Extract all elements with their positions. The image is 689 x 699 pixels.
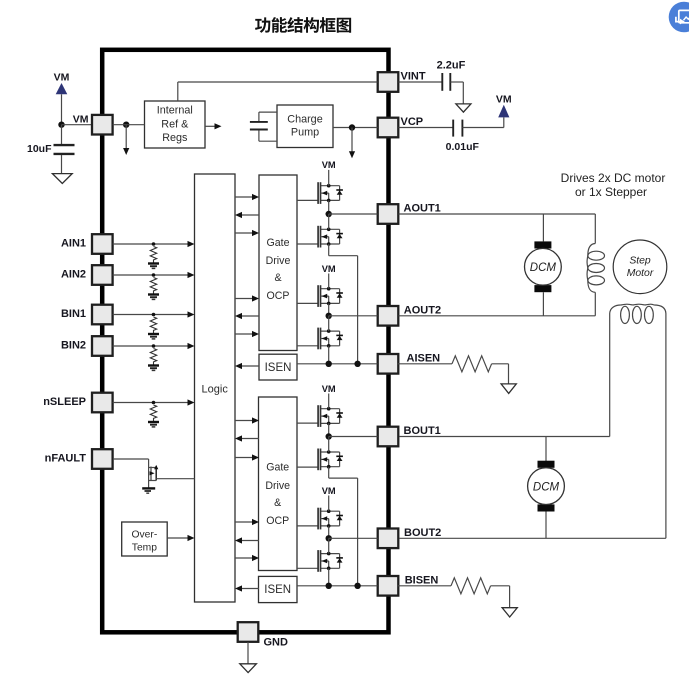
- wire BOUT2 external: [399, 537, 666, 539]
- IC boundary: [102, 50, 388, 633]
- wire VM to drain: [328, 170, 330, 186]
- svg-text:&: &: [274, 497, 281, 509]
- svg-text:AOUT2: AOUT2: [404, 304, 441, 316]
- wire BOUT1 up to coil B: [609, 314, 611, 437]
- wire AISEN to resistor: [398, 363, 452, 365]
- svg-text:VM: VM: [322, 486, 336, 496]
- wire Internal Regs to VINT: [177, 82, 179, 101]
- wire BOUT1 node to Q6 drain: [328, 437, 330, 453]
- wire AOUT2 node to Q4 drain: [328, 316, 330, 331]
- wire AOUT1 node to Q2 drain: [328, 214, 330, 229]
- transistor Q1 A-high1: [318, 182, 343, 204]
- svg-text:OCP: OCP: [267, 290, 290, 302]
- transistor Q7 B-high2: [318, 508, 343, 530]
- svg-text:Logic: Logic: [202, 383, 229, 395]
- svg-text:Ref &: Ref &: [161, 119, 189, 131]
- pin BIN2: [92, 336, 113, 356]
- wire AOUT1 down to coil A: [594, 214, 596, 244]
- resistor AISEN sense: [452, 356, 492, 372]
- svg-text:VM: VM: [322, 160, 336, 170]
- wire Over-Temp to Logic: [167, 537, 188, 539]
- inductor coil B horizontal: [610, 304, 666, 323]
- pulldown resistor BIN2: [148, 344, 159, 370]
- wire gate lead: [297, 422, 318, 424]
- svg-text:VM: VM: [322, 264, 336, 274]
- wire 10uF to ground: [61, 155, 63, 174]
- svg-text:Over-: Over-: [132, 529, 158, 540]
- ground GND: [240, 664, 257, 673]
- pin GND: [238, 622, 259, 642]
- wire ISEN to Logic: [242, 365, 259, 367]
- node ISEN B right: [354, 583, 360, 589]
- wire ISEN B line: [297, 585, 378, 587]
- svg-text:BIN1: BIN1: [61, 308, 86, 320]
- wire Logic to GateDrive: [235, 333, 253, 335]
- wire Logic to GateDrive: [235, 521, 253, 523]
- wire VM to drain: [328, 274, 330, 289]
- pin VM: [92, 115, 113, 135]
- pulldown resistor AIN2: [148, 273, 159, 299]
- wire BOUT1 external: [399, 436, 610, 438]
- block Charge Pump: [277, 105, 333, 148]
- block Logic: [195, 174, 236, 602]
- wire Q1 source to AOUT1 node: [328, 200, 330, 214]
- wire gate lead: [297, 567, 318, 569]
- wire AOUT1 external: [399, 213, 596, 215]
- wire gate lead: [297, 199, 318, 201]
- title 功能结构框图: [255, 17, 351, 33]
- svg-text:Drive: Drive: [266, 255, 291, 267]
- wire VM to drain: [328, 394, 330, 409]
- svg-text:Charge: Charge: [287, 113, 322, 125]
- pin BISEN: [378, 576, 399, 596]
- VM distribution arrow down: [125, 125, 127, 149]
- wire VCP to cap 0.01uF: [399, 127, 454, 129]
- svg-text:VM: VM: [73, 113, 89, 125]
- wire ISEN A line: [297, 363, 378, 365]
- wire Q8 source to ISEN B line: [328, 568, 330, 586]
- svg-text:Gate: Gate: [267, 237, 290, 249]
- wire Internal Regs output arrow: [205, 125, 216, 127]
- wire GateDrive to Logic: [242, 540, 259, 542]
- pin AIN2: [92, 265, 113, 285]
- pin AIN1: [92, 234, 113, 254]
- wire Logic to GateDrive: [235, 557, 253, 559]
- wire BOUT1 tap to DCM2: [545, 437, 547, 462]
- svg-text:OCP: OCP: [266, 515, 289, 527]
- svg-text:BIN2: BIN2: [61, 340, 86, 352]
- wire gate lead: [297, 466, 318, 468]
- wire AOUT2 external: [399, 315, 596, 317]
- wire Charge Pump to VCP: [333, 127, 378, 129]
- wire Q7 source to BOUT2 node: [328, 526, 330, 538]
- svg-text:Internal: Internal: [157, 104, 193, 116]
- wire DCM2 to BOUT2: [545, 512, 547, 539]
- wire coil B down to BOUT2: [665, 314, 667, 539]
- svg-text:Gate: Gate: [266, 461, 289, 473]
- block ISEN A: [259, 354, 297, 380]
- wire resistor to ground BISEN: [491, 585, 510, 587]
- blue corner icon: [669, 2, 689, 33]
- block Over-Temp: [122, 522, 168, 556]
- svg-text:2.2uF: 2.2uF: [437, 60, 466, 72]
- wire Logic to GateDrive: [235, 196, 253, 198]
- node ISEN A right: [354, 361, 360, 367]
- svg-text:0.01uF: 0.01uF: [446, 141, 480, 153]
- svg-text:Regs: Regs: [162, 132, 188, 144]
- VM supply arrow right (navy): [498, 105, 509, 118]
- ground 10uF: [52, 174, 72, 184]
- wire gate lead: [297, 302, 318, 304]
- wire Logic to GateDrive: [235, 420, 253, 422]
- wire Q3 source to AOUT2 node: [328, 303, 330, 315]
- wire BIN1 to Logic: [113, 314, 188, 316]
- wire gate lead: [297, 243, 318, 245]
- svg-text:Temp: Temp: [132, 543, 157, 554]
- wire GateDrive to Logic: [242, 315, 259, 317]
- wire resistor to ground AISEN: [492, 363, 509, 365]
- block Internal Ref & Regs: [145, 101, 206, 148]
- resistor BISEN sense: [451, 578, 491, 594]
- svg-text:BISEN: BISEN: [405, 574, 439, 586]
- transistor Q6 B-low1: [318, 449, 343, 471]
- wire Q4 source to ISEN A line: [328, 346, 330, 364]
- pin nFAULT: [92, 449, 113, 469]
- wire DCM1 to AOUT2: [542, 292, 544, 316]
- capacitor 10uF plates: [54, 144, 75, 146]
- wire BIN2 to Logic: [113, 345, 188, 347]
- svg-text:VCP: VCP: [401, 116, 424, 128]
- svg-text:VM: VM: [496, 94, 512, 106]
- VM supply arrow (navy): [56, 83, 68, 94]
- wire VM pin to Internal Regs: [113, 124, 145, 126]
- transistor Q2 A-low1: [318, 226, 343, 248]
- svg-text:or 1x Stepper: or 1x Stepper: [575, 185, 647, 199]
- svg-text:BOUT1: BOUT1: [404, 425, 441, 437]
- node ISEN B center: [326, 583, 332, 589]
- pulldown resistor AIN1: [148, 242, 159, 268]
- wire ISEN to Logic: [242, 588, 259, 590]
- wire gate lead: [297, 525, 318, 527]
- transistor Q8 B-low2: [318, 550, 343, 572]
- svg-text:&: &: [274, 272, 281, 284]
- wire AOUT1 tap to DCM1: [542, 214, 544, 241]
- wire BOUT1 node to pin: [329, 436, 378, 438]
- transistor nFAULT open-drain: [149, 465, 159, 481]
- capacitor 2.2uF: [441, 73, 443, 91]
- transistor Q3 A-high2: [318, 285, 343, 307]
- wire coil A to AOUT2: [594, 292, 596, 316]
- block Gate Drive & OCP B: [259, 397, 298, 571]
- pulldown resistor BIN1: [148, 313, 159, 339]
- svg-text:VM: VM: [54, 72, 70, 84]
- pin nSLEEP: [92, 393, 113, 413]
- svg-text:nSLEEP: nSLEEP: [43, 396, 86, 408]
- svg-text:nFAULT: nFAULT: [45, 453, 87, 465]
- svg-text:Drives 2x DC motor: Drives 2x DC motor: [561, 171, 666, 185]
- wire nSLEEP to Logic: [113, 402, 188, 404]
- node AOUT1: [326, 211, 332, 217]
- wire VINT to cap: [399, 81, 443, 83]
- wire Logic to GateDrive: [235, 457, 253, 459]
- svg-text:BOUT2: BOUT2: [404, 527, 441, 539]
- svg-text:Pump: Pump: [291, 126, 319, 138]
- node VM external: [58, 122, 64, 128]
- svg-text:VM: VM: [322, 384, 336, 394]
- block Gate Drive & OCP A: [259, 175, 297, 351]
- svg-text:10uF: 10uF: [27, 143, 52, 155]
- capacitor 0.01uF: [452, 120, 454, 137]
- pulldown resistor nSLEEP: [148, 401, 159, 427]
- svg-text:GND: GND: [264, 636, 289, 648]
- wire cap to ground: [450, 81, 463, 83]
- wire Q5 source to BOUT1 node: [328, 423, 330, 436]
- wire Q6 source jog to ISEN B: [328, 467, 330, 478]
- pin AISEN: [378, 354, 399, 374]
- wire AIN2 to Logic: [113, 274, 188, 276]
- node VCP internal: [349, 124, 355, 130]
- wire BOUT2 node to Q8 drain: [328, 538, 330, 553]
- motor DCM2: [528, 461, 565, 512]
- wire cap 0.01uF to VM: [462, 127, 503, 129]
- ground BISEN: [502, 608, 517, 617]
- wire gate lead: [297, 345, 318, 347]
- block ISEN B: [259, 576, 298, 602]
- wire Logic to GateDrive: [235, 232, 253, 234]
- pin BOUT2: [378, 529, 399, 549]
- transistor Q5 B-high1: [318, 405, 343, 427]
- wire Q2 source jog to ISEN A: [328, 244, 330, 256]
- wire VM to drain: [328, 496, 330, 512]
- pin BOUT1: [378, 427, 399, 447]
- wire node to VM pin: [62, 124, 94, 126]
- wire GND pin to ground: [247, 642, 249, 664]
- svg-text:ISEN: ISEN: [265, 362, 292, 374]
- wire nFAULT to FET: [113, 458, 149, 460]
- node BOUT2: [326, 535, 332, 541]
- VCP distribution arrow down: [351, 128, 353, 153]
- wire AIN1 to Logic: [113, 243, 188, 245]
- pin BIN1: [92, 305, 113, 325]
- svg-text:AOUT1: AOUT1: [404, 203, 441, 215]
- transistor Q4 A-low2: [318, 328, 343, 350]
- motor DCM1: [525, 241, 562, 292]
- svg-text:AIN1: AIN1: [61, 238, 86, 250]
- pin AOUT2: [378, 306, 399, 326]
- svg-text:AIN2: AIN2: [61, 269, 86, 281]
- inductor coil A vertical: [587, 244, 604, 293]
- wire BISEN to resistor: [398, 585, 451, 587]
- ground AISEN: [501, 384, 516, 394]
- wire GateDrive to Logic: [242, 214, 259, 216]
- ground nFAULT FET: [142, 488, 155, 493]
- wire FET gate to Logic: [156, 478, 194, 480]
- svg-text:Drive: Drive: [265, 480, 290, 492]
- svg-text:Step: Step: [629, 256, 651, 267]
- wire GateDrive to Logic: [242, 438, 259, 440]
- node ISEN A center: [326, 361, 332, 367]
- wire AOUT1 node to pin: [329, 213, 378, 215]
- pin VCP: [378, 118, 399, 138]
- capacitor C-bulk 10uF wire: [61, 125, 63, 144]
- svg-text:VINT: VINT: [401, 71, 426, 83]
- wire Logic to GateDrive: [235, 298, 253, 300]
- capacitor charge-pump flying: [250, 112, 277, 141]
- node AOUT2: [326, 313, 332, 319]
- svg-text:Motor: Motor: [627, 268, 654, 279]
- motor Step Motor: [613, 240, 667, 294]
- wire BOUT2 node to pin: [329, 537, 378, 539]
- wire AOUT2 node to pin: [329, 315, 378, 317]
- wire VM arrow to node: [61, 94, 63, 124]
- node BOUT1: [326, 433, 332, 439]
- pin AOUT1: [378, 204, 399, 224]
- svg-text:AISEN: AISEN: [407, 352, 441, 364]
- pin VINT: [378, 72, 399, 92]
- node VM internal: [123, 122, 129, 128]
- svg-text:ISEN: ISEN: [264, 584, 291, 596]
- ground 2.2uF: [456, 104, 471, 112]
